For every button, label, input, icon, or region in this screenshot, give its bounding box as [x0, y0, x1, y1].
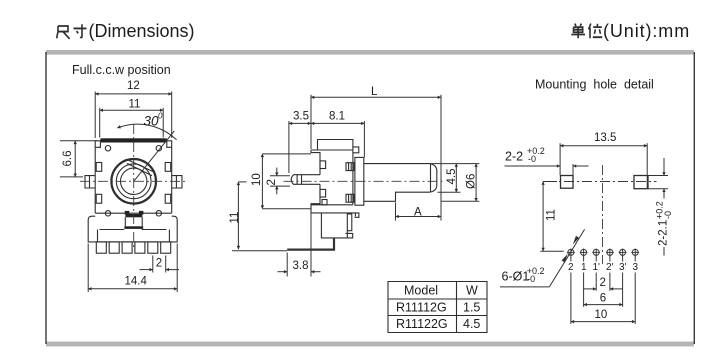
mount dim 2.1 right slot	[649, 158, 674, 256]
svg-text:1.5: 1.5	[463, 301, 480, 315]
front pin 2	[109, 242, 119, 253]
svg-text:2: 2	[568, 262, 574, 273]
side dim L	[311, 86, 441, 221]
svg-text:11: 11	[129, 99, 141, 111]
svg-text:Mounting hole detail: Mounting hole detail	[535, 78, 654, 92]
mount slot left	[561, 176, 574, 189]
table grid	[388, 282, 487, 333]
svg-text:2: 2	[600, 277, 606, 289]
svg-text:W: W	[466, 284, 478, 298]
mount hole 4	[606, 249, 614, 257]
svg-text:Full.c.c.w position: Full.c.c.w position	[72, 63, 171, 77]
svg-text:1: 1	[581, 262, 587, 273]
side dim 3.8	[278, 213, 321, 277]
side dim dia6	[441, 164, 479, 202]
mount label 6-dia1 tol	[500, 229, 585, 287]
svg-text:A: A	[414, 207, 422, 219]
svg-text:30: 30	[144, 114, 160, 129]
svg-text:R11112G: R11112G	[396, 301, 447, 315]
svg-text:2: 2	[156, 258, 162, 270]
front detent bracket black bar	[125, 211, 130, 215]
mount label 2-2 tol	[505, 146, 589, 175]
mount vertical centerline	[602, 165, 604, 264]
front body outer rect	[95, 141, 172, 213]
side dim A	[396, 203, 442, 221]
svg-text:3.5: 3.5	[293, 111, 309, 123]
svg-text:4.5: 4.5	[446, 169, 458, 185]
title CJK 位 glyph	[589, 24, 603, 39]
svg-text:(Dimensions): (Dimensions)	[89, 21, 195, 41]
front side tab right	[172, 176, 182, 188]
front dim 12	[95, 80, 172, 138]
frame bottom gray bar	[46, 342, 694, 347]
side cap	[318, 140, 353, 151]
front body inner wall lines	[98, 230, 170, 242]
side dim 2 pin	[266, 168, 290, 195]
mount pin labels	[568, 262, 639, 273]
svg-text:12: 12	[127, 80, 140, 92]
front detent bracket bottom bar	[124, 226, 143, 229]
front dim 6.6	[60, 141, 97, 177]
side terminal wire	[287, 238, 334, 250]
svg-text:L: L	[371, 86, 378, 98]
mount horizontal centerline	[546, 181, 657, 183]
front rotor inner circle	[121, 168, 147, 194]
frame top gray bar	[46, 50, 694, 55]
front pin 3	[122, 242, 132, 253]
front rotor slot	[127, 160, 153, 176]
front horizontal centerline	[80, 180, 188, 182]
front top corner steps	[95, 141, 172, 148]
side dim 4.5	[431, 164, 460, 193]
mount slot right	[634, 176, 648, 189]
front notch square right lower	[165, 194, 171, 203]
front rotor outer circle	[111, 159, 156, 204]
mount hole 1	[567, 249, 575, 257]
front dim 11	[100, 99, 164, 138]
front dim 14.4	[88, 244, 177, 293]
side mounting plate	[355, 157, 364, 205]
side centerline	[284, 180, 446, 182]
side shaft	[364, 164, 437, 202]
title CJK 寸 glyph	[74, 24, 87, 37]
svg-text:13.5: 13.5	[594, 132, 616, 144]
svg-text:10: 10	[595, 309, 608, 321]
side dim 10	[251, 154, 311, 209]
side dim 11	[229, 182, 287, 251]
svg-text:6: 6	[600, 293, 606, 305]
frame right border	[693, 52, 695, 344]
side clip comb lower	[346, 194, 354, 202]
side cap tab	[353, 147, 359, 153]
svg-text:11: 11	[546, 209, 558, 221]
svg-text:Model: Model	[404, 284, 438, 298]
svg-text:4.5: 4.5	[463, 317, 480, 331]
front flange	[88, 213, 177, 242]
front pin 4	[135, 242, 145, 253]
front body top black bar	[100, 138, 166, 142]
svg-text:3.8: 3.8	[293, 260, 309, 272]
side dim 3.5	[289, 111, 311, 174]
front notch square left upper	[96, 163, 102, 172]
svg-text:-0: -0	[528, 154, 536, 164]
svg-text:0: 0	[158, 112, 163, 121]
svg-text:10: 10	[251, 173, 263, 186]
svg-text:2-2.1: 2-2.1	[658, 220, 670, 246]
svg-text:8.1: 8.1	[329, 111, 345, 123]
side pin	[291, 175, 320, 185]
side bottom notch	[322, 200, 327, 205]
front pin 1	[96, 242, 106, 253]
front 30 deg arc	[117, 124, 176, 140]
side dim 8.1	[311, 111, 364, 158]
front pin 5	[148, 242, 158, 253]
svg-text:14.4: 14.4	[125, 276, 148, 288]
side body outline	[311, 150, 353, 205]
mount dim 11	[540, 182, 563, 252]
mount hole 6	[631, 249, 639, 257]
svg-text:2': 2'	[606, 262, 614, 273]
svg-text:R11122G: R11122G	[396, 317, 448, 331]
side lower block	[321, 213, 352, 238]
side body bump lower	[320, 189, 326, 197]
svg-text:1': 1'	[593, 262, 601, 273]
front vertical centerline	[133, 124, 135, 249]
mount dim 6 bottom	[584, 256, 623, 307]
front 30 deg pointer line	[134, 131, 175, 181]
svg-text:2: 2	[266, 179, 278, 185]
front notch square left lower	[96, 194, 102, 203]
front pin 6	[161, 242, 171, 253]
svg-text:6-Ø1: 6-Ø1	[502, 269, 530, 283]
front detent bracket	[125, 217, 142, 226]
front corner hole bottom-right	[156, 211, 161, 216]
mount dim 2 bottom	[583, 256, 623, 291]
svg-text:3': 3'	[619, 262, 627, 273]
frame left border	[45, 52, 47, 344]
svg-text:Ø6: Ø6	[466, 174, 478, 189]
front corner hole top-left	[105, 146, 110, 151]
svg-text:-0: -0	[527, 274, 535, 284]
svg-text:-0: -0	[663, 211, 673, 219]
svg-text:3: 3	[633, 262, 639, 273]
front notch square right upper	[165, 163, 171, 172]
side body bump upper	[320, 161, 326, 169]
title CJK 单 glyph	[571, 24, 585, 39]
side clip comb upper	[346, 163, 354, 171]
side flange strip	[311, 205, 355, 217]
mount dim 13.5	[560, 132, 647, 189]
mount hole 5	[619, 249, 627, 257]
title CJK 尺 glyph	[57, 26, 70, 39]
front corner hole top-right	[156, 146, 161, 151]
mount hole 2	[580, 249, 588, 257]
front rotor middle circle	[116, 164, 151, 199]
svg-text:2-2: 2-2	[505, 150, 523, 164]
svg-text:11: 11	[229, 212, 241, 224]
svg-text:6.6: 6.6	[62, 151, 74, 167]
front corner hole bottom-left	[105, 211, 110, 216]
front dim 2 pins	[140, 256, 180, 273]
mount hole 3	[592, 249, 600, 257]
front side tab left	[85, 176, 95, 188]
svg-text:(Unit):mm: (Unit):mm	[603, 21, 690, 41]
side plate foot	[355, 213, 359, 217]
mount dim 10 bottom	[571, 256, 635, 324]
